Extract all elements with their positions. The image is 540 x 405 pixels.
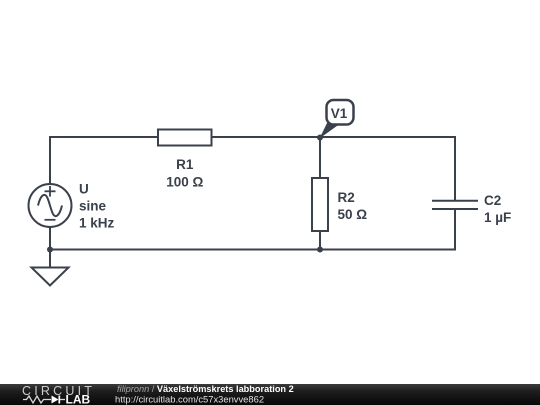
label R2 50 Ω <box>338 190 368 222</box>
wire: R2 top stub <box>319 137 321 178</box>
wire: top node from source to R1 <box>50 137 158 184</box>
svg-text:V1: V1 <box>331 106 348 121</box>
junction dot bottom of R2 <box>317 247 323 253</box>
probe V1 callout <box>320 100 354 139</box>
resistor R1 <box>158 130 212 146</box>
svg-text:http://circuitlab.com/c57x3env: http://circuitlab.com/c57x3envve862 <box>115 393 264 404</box>
svg-text:C2: C2 <box>484 193 501 208</box>
junction dot at ground <box>47 247 53 253</box>
label U sine 1 kHz <box>79 182 115 231</box>
wire: R2 bottom stub <box>319 231 321 250</box>
footer title text <box>115 384 294 404</box>
capacitor C2 <box>432 201 478 209</box>
svg-text:R2: R2 <box>338 190 355 205</box>
footer CircuitLab logo <box>22 384 95 405</box>
wire: source bottom to ground node <box>49 227 51 250</box>
svg-text:R1: R1 <box>176 157 194 172</box>
wire: bottom rail to source/ground <box>50 249 320 251</box>
svg-text:1 µF: 1 µF <box>484 210 511 225</box>
node A junction dot (top) <box>317 135 323 141</box>
svg-text:LAB: LAB <box>66 393 91 405</box>
wire: C2 bottom to bottom rail <box>320 210 455 250</box>
wire: node A to C2 top <box>320 137 455 200</box>
svg-text:100 Ω: 100 Ω <box>166 175 203 190</box>
ground <box>32 250 69 286</box>
svg-text:sine: sine <box>79 199 107 214</box>
resistor R2 <box>312 178 328 231</box>
wire: R1 to node A <box>212 136 321 138</box>
voltage source U (sine 1 kHz) <box>29 184 72 227</box>
svg-text:U: U <box>79 182 89 197</box>
label R1 100 Ω <box>166 157 203 190</box>
label C2 1 µF <box>484 193 511 225</box>
svg-text:50 Ω: 50 Ω <box>338 207 368 222</box>
svg-text:1 kHz: 1 kHz <box>79 216 115 231</box>
